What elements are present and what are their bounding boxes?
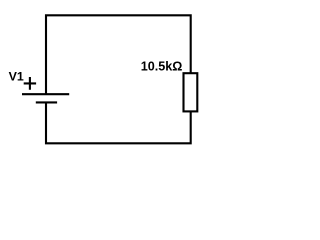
wire bottom: battery negative down, across, up to resistor — [46, 102, 191, 143]
plus polarity marker — [24, 77, 36, 90]
svg-text:10.5kΩ: 10.5kΩ — [141, 60, 183, 74]
wire top: left branch to right branch — [46, 15, 191, 94]
voltage source V1 battery top plate (positive, long) — [22, 93, 69, 95]
voltage source V1 battery bottom plate (negative, short) — [36, 101, 57, 103]
svg-text:V1: V1 — [9, 70, 24, 84]
resistor body (box) — [184, 73, 198, 111]
